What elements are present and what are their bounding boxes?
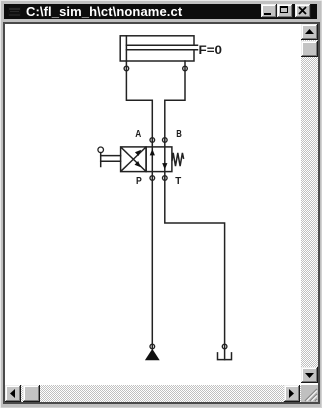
wire: valve vertical through-line A-P down to source [151,140,153,349]
svg-text:F=0: F=0 [199,43,223,57]
node T [163,176,168,181]
title text [26,4,182,19]
node P [150,176,155,181]
valve crossed diagonal 1 (BL to TR) [122,148,146,171]
svg-text:B: B [176,128,182,140]
maximize button [277,4,293,18]
node: cylinder right port [183,66,188,71]
valve actuator roller circle [98,147,104,153]
horizontal scrollbar [5,385,301,402]
valve V1 right square [146,147,172,172]
crossed arrowhead up-right [135,150,141,156]
cylinder rod [126,44,197,46]
valve V1 left square [121,147,147,172]
down arrow button [301,367,318,383]
minimize button [261,4,277,18]
node B [163,138,168,143]
close button [295,4,311,18]
wire: cylinder left port to valve A [126,61,152,140]
valve arrow down (B to T) [162,163,167,170]
valve crossed diagonal 2 (TL to BR) [122,148,146,171]
svg-text:P: P [136,175,142,187]
window icon [7,5,23,18]
right arrow button [284,385,300,402]
vertical scrollbar [301,24,318,383]
left arrow button [5,385,21,402]
h thumb [23,385,40,402]
node tank [222,344,227,349]
wire: valve vertical through-line B-T [164,140,166,178]
wire: T to tank [165,178,225,360]
node A [150,138,155,143]
svg-text:A: A [135,128,141,140]
valve arrow up (P to A) [150,149,155,156]
up arrow button [301,24,318,40]
wire: cylinder right port to valve B [165,61,185,140]
v thumb [301,41,318,57]
valve actuator stem [100,153,102,167]
tank T1 [218,353,232,360]
cylinder piston [125,36,127,61]
title bar [4,4,317,19]
pressure source triangle [145,349,160,360]
valve spring [172,153,183,166]
size grip [301,385,318,402]
node source [150,344,155,349]
cylinder C1 body [120,36,194,61]
crossed arrowhead down-right [135,161,141,167]
svg-text:T: T [175,175,182,187]
node: cylinder left port [124,66,129,71]
